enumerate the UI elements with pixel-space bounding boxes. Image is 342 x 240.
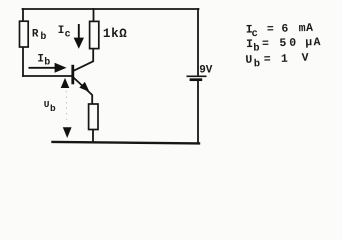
wire collector top stub xyxy=(93,9,95,22)
current arrow I_c xyxy=(74,24,84,49)
svg-text:I: I xyxy=(37,53,44,65)
battery V1 long plate xyxy=(187,75,207,77)
wire emitter resistor to bottom rail xyxy=(92,130,94,143)
wire collector to transistor xyxy=(74,49,93,71)
svg-text:V: V xyxy=(302,52,309,65)
equation line U_b = 1 V xyxy=(245,52,309,71)
svg-text:b: b xyxy=(253,43,260,55)
svg-text:=: = xyxy=(267,23,274,36)
svg-text:9V: 9V xyxy=(199,65,213,77)
label R_b xyxy=(32,29,47,44)
transistor Q1 emitter arrowhead xyxy=(79,82,89,92)
svg-text:=: = xyxy=(264,53,271,66)
equation line I_c = 6 mA xyxy=(246,22,314,40)
svg-text:c: c xyxy=(65,30,71,41)
svg-text:m: m xyxy=(299,22,306,35)
wire left vertical branch xyxy=(22,9,24,76)
voltage arrow U_b upper arrowhead xyxy=(61,78,70,88)
current arrow I_b xyxy=(29,63,67,73)
svg-text:=: = xyxy=(262,37,269,50)
wire right vertical above battery xyxy=(197,9,199,76)
svg-text:U: U xyxy=(245,54,252,67)
svg-text:1kΩ: 1kΩ xyxy=(103,27,128,41)
svg-text:b: b xyxy=(44,57,50,69)
label I_c xyxy=(58,25,71,40)
svg-text:5: 5 xyxy=(279,37,286,50)
wire emitter to resistor xyxy=(74,78,92,104)
svg-text:A: A xyxy=(313,36,320,49)
svg-text:b: b xyxy=(254,58,261,70)
battery V1 short thick plate xyxy=(190,78,203,81)
svg-text:0: 0 xyxy=(289,37,296,50)
wire top rail xyxy=(23,8,199,10)
resistor emitter box xyxy=(89,104,98,130)
voltage arrow U_b lower arrowhead xyxy=(63,127,72,138)
resistor R_b box xyxy=(20,21,29,47)
transistor Q1 base bar xyxy=(71,65,74,85)
svg-text:A: A xyxy=(306,22,313,35)
svg-text:b: b xyxy=(40,31,46,43)
svg-text:1: 1 xyxy=(281,53,288,66)
svg-text:U: U xyxy=(44,99,50,110)
equation line I_b = 50 uA xyxy=(246,36,321,55)
resistor 1k ohm box xyxy=(90,21,99,48)
wire right vertical below battery xyxy=(197,81,199,144)
label U_b xyxy=(44,99,56,114)
svg-text:b: b xyxy=(50,103,56,114)
svg-text:R: R xyxy=(32,29,39,41)
voltage arrow U_b dotted line xyxy=(65,91,68,124)
label I_b xyxy=(37,53,50,68)
svg-text:6: 6 xyxy=(281,23,288,36)
svg-text:µ: µ xyxy=(305,36,312,49)
svg-text:I: I xyxy=(58,25,65,37)
wire base horizontal xyxy=(23,75,73,77)
wire bottom rail xyxy=(53,142,200,144)
